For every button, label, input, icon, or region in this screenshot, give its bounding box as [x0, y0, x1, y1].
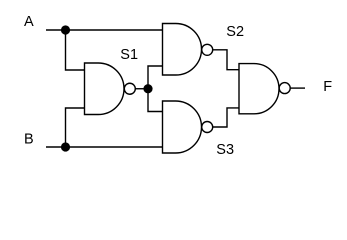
- wire A lead to NAND S2 upper input: [46, 29, 163, 31]
- nand-gate S1 body: [85, 63, 125, 115]
- nand-gate S2 output bubble: [202, 44, 213, 55]
- svg-text:S3: S3: [216, 142, 234, 158]
- wire F output lead: [290, 87, 305, 89]
- svg-text:B: B: [24, 131, 34, 147]
- svg-text:F: F: [323, 79, 332, 95]
- wire S2 output to final gate upper input: [213, 50, 239, 70]
- node A junction: [61, 25, 70, 34]
- nand-gate U4 final body: [239, 64, 279, 114]
- node S1 output junction: [143, 84, 152, 93]
- nand-gate S3 body: [163, 101, 202, 153]
- wire S1 output to S3 upper input: [148, 89, 163, 112]
- wire A branch to S1 upper input: [66, 30, 85, 70]
- nand-gate S2 body: [163, 24, 202, 76]
- wire S1 output stub: [135, 88, 148, 90]
- nand-gate S1 output bubble: [124, 83, 135, 94]
- wire S1 output to S2 lower input: [148, 66, 163, 89]
- nand-gate U4 output bubble: [279, 83, 290, 94]
- wire S3 output to final gate lower input: [213, 108, 239, 127]
- svg-text:A: A: [24, 14, 34, 30]
- wire B lead to NAND S3 lower input: [46, 146, 163, 148]
- nand-gate S3 output bubble: [202, 122, 213, 133]
- wire B branch to S1 lower input: [66, 108, 85, 147]
- svg-text:S2: S2: [226, 24, 244, 40]
- svg-text:S1: S1: [120, 47, 138, 63]
- node B junction: [61, 142, 70, 151]
